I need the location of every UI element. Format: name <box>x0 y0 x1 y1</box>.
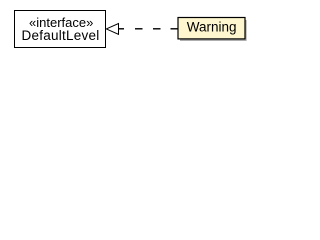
svg-text:DefaultLevel: DefaultLevel <box>21 28 99 43</box>
realization arrowhead (hollow triangle) <box>106 24 118 35</box>
Warning node <box>178 18 245 39</box>
svg-text:Warning: Warning <box>187 19 237 34</box>
Warning node shadow <box>180 20 247 41</box>
interface DefaultLevel <box>15 11 106 48</box>
background <box>0 0 260 61</box>
dashed wire <box>119 28 179 29</box>
